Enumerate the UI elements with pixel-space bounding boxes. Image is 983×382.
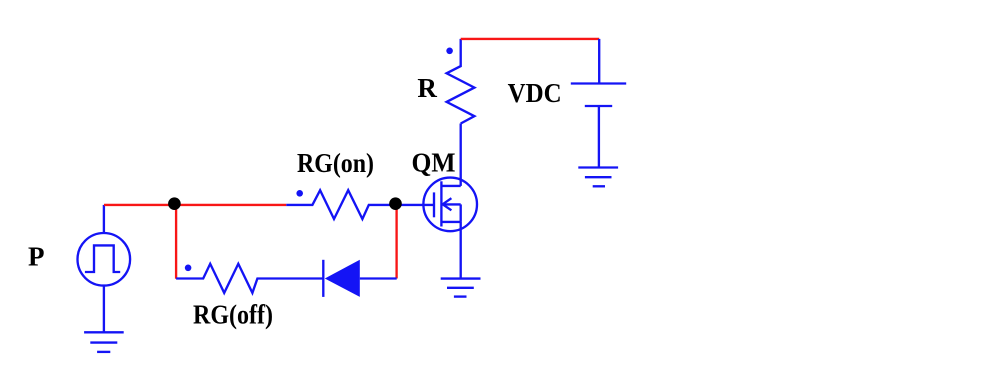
- pin dot R pin1: [446, 48, 453, 55]
- battery VDC: [571, 39, 626, 168]
- svg-text:QM: QM: [412, 148, 456, 178]
- wire (P to junction A to RG(on), red): [104, 204, 286, 206]
- ground (below QM source): [441, 279, 481, 297]
- svg-text:P: P: [28, 241, 45, 271]
- resistor R: [447, 39, 475, 124]
- resistor RG(on): [286, 190, 395, 219]
- transistor QM (MOSFET): [396, 124, 477, 279]
- ground (below VDC): [578, 168, 618, 187]
- ground (below P): [84, 332, 124, 352]
- svg-text:VDC: VDC: [508, 78, 562, 108]
- resistor RG(off): [176, 264, 322, 293]
- diode D1: [323, 260, 396, 297]
- node B (gate junction dot): [389, 197, 402, 210]
- pin dot RG(on) pin1: [296, 190, 303, 197]
- svg-text:RG(off): RG(off): [193, 300, 273, 330]
- wire (R top to VDC, red): [461, 38, 600, 40]
- wire (junction A down to RG(off), red): [175, 205, 177, 279]
- wire (gate node down to diode, red): [395, 204, 397, 278]
- svg-text:RG(on): RG(on): [297, 148, 374, 178]
- pulse source P: [78, 205, 131, 332]
- svg-text:R: R: [417, 73, 437, 103]
- pin dot RG(off) pin1: [185, 265, 192, 272]
- node A (junction dot): [168, 197, 181, 210]
